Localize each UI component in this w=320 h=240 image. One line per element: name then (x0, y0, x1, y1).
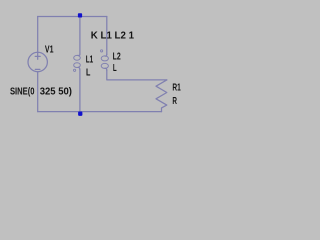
inductor L2 winding (two loops) (101, 56, 108, 61)
inductor L2 winding entry curl (105, 54, 107, 56)
svg-text:L: L (86, 67, 90, 78)
V1 minus sign (35, 68, 40, 70)
svg-text:K L1 L2 1: K L1 L2 1 (91, 30, 135, 41)
svg-text:SINE(0: SINE(0 (10, 87, 35, 98)
svg-text:L1: L1 (86, 55, 94, 66)
wire L1 bottom lead (79, 70, 81, 112)
voltage source V1 circle (28, 52, 47, 71)
wire L1 top lead (79, 17, 81, 55)
svg-text:L: L (113, 63, 117, 74)
junction node dot (top, at L1 tap) (78, 13, 82, 17)
inductor L1 winding exit curl (78, 67, 80, 69)
L2 phase dot (101, 50, 103, 52)
svg-text:R: R (172, 96, 177, 107)
wire V1 bottom lead (37, 72, 39, 112)
inductor L1 winding (two loops) (74, 55, 81, 60)
wire L2 bottom lead and horizontal run to R1 (107, 70, 167, 80)
inductor L1 winding entry curl (78, 54, 80, 55)
svg-text:325 50): 325 50) (40, 87, 72, 98)
wire left vertical (V1 top lead) (37, 17, 39, 60)
L1 phase dot (74, 69, 76, 71)
resistor R1 zigzag (156, 80, 167, 112)
inductor L2 winding exit curl (105, 68, 107, 70)
V1 plus sign crossbar (35, 55, 40, 57)
wire bottom rail (38, 111, 162, 113)
svg-text:L2: L2 (113, 51, 121, 62)
wire L2 top lead (106, 17, 108, 55)
svg-text:R1: R1 (172, 82, 181, 93)
wire top rail (38, 16, 107, 18)
svg-text:V1: V1 (45, 44, 54, 55)
junction node dot (bottom, at L1 return) (78, 112, 82, 116)
